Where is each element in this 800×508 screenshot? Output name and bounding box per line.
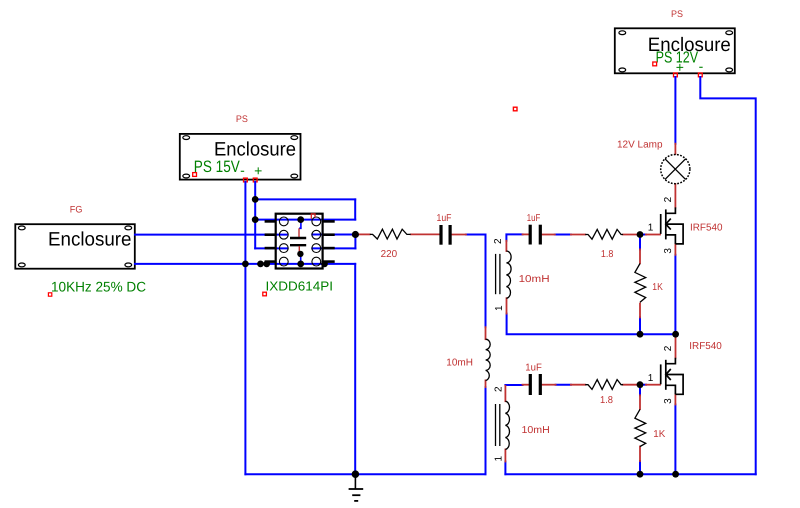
svg-text:1K: 1K: [652, 282, 663, 293]
lead R1.8-1 to gate junction Q1: [623, 234, 637, 236]
lead cap C3 right: [542, 384, 556, 386]
wire VCC row pin1-pin8: [255, 219, 355, 221]
wire T1 secondary bottom to rail1: [507, 314, 676, 335]
lead L primary bottom: [485, 380, 487, 387]
transistor Q2 IRF540: [661, 358, 683, 395]
lead Q2 drain from rail1: [675, 336, 677, 358]
junction dot U1 bottom center: [297, 261, 304, 268]
svg-text:1uF: 1uF: [437, 213, 452, 224]
svg-text:PS: PS: [236, 114, 248, 125]
wire PS15V minus vertical: [244, 182, 246, 474]
svg-text:1: 1: [648, 223, 654, 234]
svg-text:-: -: [699, 58, 704, 74]
lead R1K-1 lower stub: [639, 304, 641, 318]
lead R1K-1 top: [639, 249, 641, 263]
svg-text:1uF: 1uF: [525, 362, 542, 373]
wire output junction vertical: [354, 235, 356, 249]
junction dot output: [352, 231, 359, 238]
wire plus branch to pin8 loop top: [255, 198, 355, 200]
capacitor C2 1uF plates: [530, 225, 540, 245]
wire to IC pin3: [255, 247, 287, 249]
enclosure FG (function generator): [15, 224, 135, 269]
junction dot Q2 gate: [637, 381, 644, 388]
lead output junction to R220: [357, 233, 370, 235]
junction dot rail1 at Q1 source: [672, 331, 679, 338]
svg-text:-: -: [240, 162, 245, 178]
junction dot rail2 at 1K: [637, 471, 644, 478]
U1 internal blue stub bottom: [300, 254, 302, 264]
lead gate junction to Q2 gate: [646, 384, 660, 386]
U1 pin stubs left: [265, 221, 276, 261]
lead T1 secondary top: [505, 241, 507, 251]
U1 internal red lead upper: [298, 228, 300, 237]
junction dot ground: [352, 470, 360, 478]
enclosure PS15V: [180, 134, 301, 180]
enclosure PS12V: [615, 28, 735, 73]
lead cap C3 left: [523, 384, 529, 386]
wire T2 top corner to cap C3: [505, 384, 522, 386]
U1 internal capacitor plate top: [290, 237, 306, 239]
svg-text:10mH: 10mH: [519, 274, 550, 285]
junction dot minus at pin4 wire: [242, 261, 249, 268]
svg-text:1K: 1K: [653, 429, 665, 440]
svg-text:12V Lamp: 12V Lamp: [617, 140, 663, 151]
junction dot rail2 at Q2 source: [672, 471, 679, 478]
PS15V terminal square minus: [244, 178, 248, 182]
lead Q2 source: [674, 394, 676, 404]
junction dot pin5 stub: [321, 261, 328, 268]
lamp X1 12V circle: [661, 155, 690, 184]
lead T2 top: [504, 386, 506, 401]
svg-text:FG: FG: [70, 204, 83, 215]
marker square FG label: [48, 293, 51, 296]
svg-text:2: 2: [493, 238, 504, 244]
inductor L primary 10mH coil: [486, 339, 491, 380]
U1 internal capacitor plate bottom: [290, 244, 306, 246]
resistor 1.8 lower: [585, 380, 623, 390]
lead gate junction to Q1 gate: [646, 234, 660, 236]
wire T1 secondary top corner to cap C2: [506, 234, 522, 240]
capacitor C3 1uF plates: [530, 374, 540, 395]
marker square IXDD614PI: [263, 292, 267, 296]
wire PS12V plus down to lamp: [674, 77, 676, 144]
wire Q2 source down to rail2: [674, 405, 676, 475]
svg-text:1: 1: [648, 373, 654, 384]
wire R1K-2 top segment: [639, 388, 641, 396]
lamp X cross: [665, 159, 686, 180]
wire cap C1 to L primary top corner: [466, 235, 486, 328]
marker square PS12V label: [653, 62, 657, 66]
wire R1K-1 top segment: [639, 237, 641, 250]
U1 pin circles: [279, 217, 320, 266]
svg-text:220: 220: [381, 249, 398, 260]
transistor Q1 IRF540: [661, 207, 683, 244]
PS12V terminal square minus: [698, 73, 702, 77]
svg-text:IRF540: IRF540: [689, 341, 722, 352]
svg-text:1: 1: [494, 455, 505, 461]
U1 internal blue stub top: [299, 220, 301, 229]
wire IC pin6 to output junction: [312, 247, 355, 249]
junction dot rail1 at 1K: [637, 331, 644, 338]
marker square PS15V label: [193, 173, 197, 177]
lead R1K-2 lower stub: [639, 447, 641, 462]
wire C2-R1.8 middle segment: [555, 234, 571, 236]
lead to R1.8-2: [571, 384, 585, 386]
svg-text:1: 1: [494, 305, 505, 311]
wire T2 bottom to rail2: [504, 462, 506, 475]
wire IC pin5 down to ground rail: [354, 264, 356, 474]
wire L primary bottom to ground rail: [485, 387, 487, 474]
svg-text:3: 3: [663, 248, 674, 254]
svg-text:2: 2: [663, 196, 674, 202]
wire primary-side ground rail: [245, 473, 485, 475]
svg-text:PS 15V: PS 15V: [194, 158, 240, 176]
lead cap C1 right: [451, 234, 466, 236]
capacitor C1 1uF plates: [441, 225, 450, 245]
lead T1 secondary bottom: [506, 298, 508, 313]
wire pin8 loop vertical: [354, 199, 356, 219]
svg-text:Enclosure: Enclosure: [48, 229, 132, 251]
wire PS15V plus vertical: [254, 182, 256, 248]
junction dot plus branch: [252, 196, 259, 203]
junction dot U1 internal: [297, 251, 303, 257]
svg-text:10KHz 25% DC: 10KHz 25% DC: [51, 278, 146, 294]
U1 pin stubs right: [323, 221, 335, 261]
transformer T1 secondary coil 10mH: [506, 251, 511, 298]
lead L primary top: [485, 327, 487, 339]
U1 red hook marker top right: [311, 214, 315, 219]
lead Q1 source: [674, 244, 676, 255]
transformer T1 core lines: [496, 254, 500, 294]
svg-text:2: 2: [493, 386, 504, 392]
lead T2 bottom: [504, 449, 506, 461]
wire FG out top to IC pin2: [135, 234, 287, 236]
resistor 1K upper: [635, 264, 646, 303]
U1 internal red lead lower: [298, 246, 300, 253]
op-amp driver U1 IXDD614PI body: [276, 214, 323, 269]
svg-text:IRF540: IRF540: [690, 223, 723, 234]
lead cap C2 right: [542, 234, 555, 236]
resistor 1K lower: [635, 409, 646, 446]
lead lamp bottom to Q1 drain: [674, 184, 676, 208]
wire PS12V minus to right trunk: [700, 77, 755, 474]
svg-text:3: 3: [663, 398, 674, 404]
junction dot pin4 stub a: [257, 261, 264, 268]
lead R1.8-2 to gate junction Q2: [623, 384, 637, 386]
svg-text:1uF: 1uF: [527, 213, 541, 224]
wire gate sliver Q1: [643, 234, 647, 236]
lead R1K-2 top: [639, 395, 641, 409]
resistor 1.8 upper: [585, 229, 623, 239]
svg-text:10mH: 10mH: [446, 358, 473, 369]
wire R1K-1 bottom segment: [639, 317, 641, 334]
junction dot Q1 gate: [637, 231, 644, 238]
transformer T2 secondary coil 10mH: [505, 401, 509, 449]
wire C3-R1.8 middle segment: [556, 384, 571, 386]
junction dot plus at VCC row: [252, 216, 259, 223]
svg-text:1.8: 1.8: [601, 249, 614, 260]
lead cap C2 left: [523, 233, 529, 235]
svg-text:IXDD614PI: IXDD614PI: [266, 279, 334, 294]
lead lamp top: [674, 144, 676, 154]
svg-text:PS: PS: [671, 9, 683, 20]
wire gate sliver Q2: [643, 384, 647, 386]
wire IC pin7 to output junction: [312, 234, 355, 236]
lead R220 to cap C1: [411, 233, 440, 235]
PS12V terminal square plus: [674, 73, 678, 77]
floating marker square: [513, 107, 517, 111]
transformer T2 core lines: [496, 404, 500, 446]
PS15V terminal square plus: [253, 178, 257, 182]
junction dot pin4 stub b: [263, 261, 270, 268]
junction dot U1 top center: [297, 216, 304, 223]
wire secondary rail2: [505, 473, 755, 475]
lead to R1.8-1: [571, 234, 585, 236]
wire FG out bottom to IC pin4 and pin5 row: [135, 263, 355, 265]
ground symbol: [349, 476, 364, 501]
wire R1K-2 bottom segment: [639, 461, 641, 474]
svg-text:2: 2: [663, 345, 674, 351]
resistor 220: [370, 229, 411, 239]
svg-text:+: +: [254, 163, 262, 179]
svg-text:1.8: 1.8: [600, 395, 613, 406]
wire Q1 source down to rail1: [674, 255, 676, 334]
svg-text:10mH: 10mH: [522, 425, 550, 436]
